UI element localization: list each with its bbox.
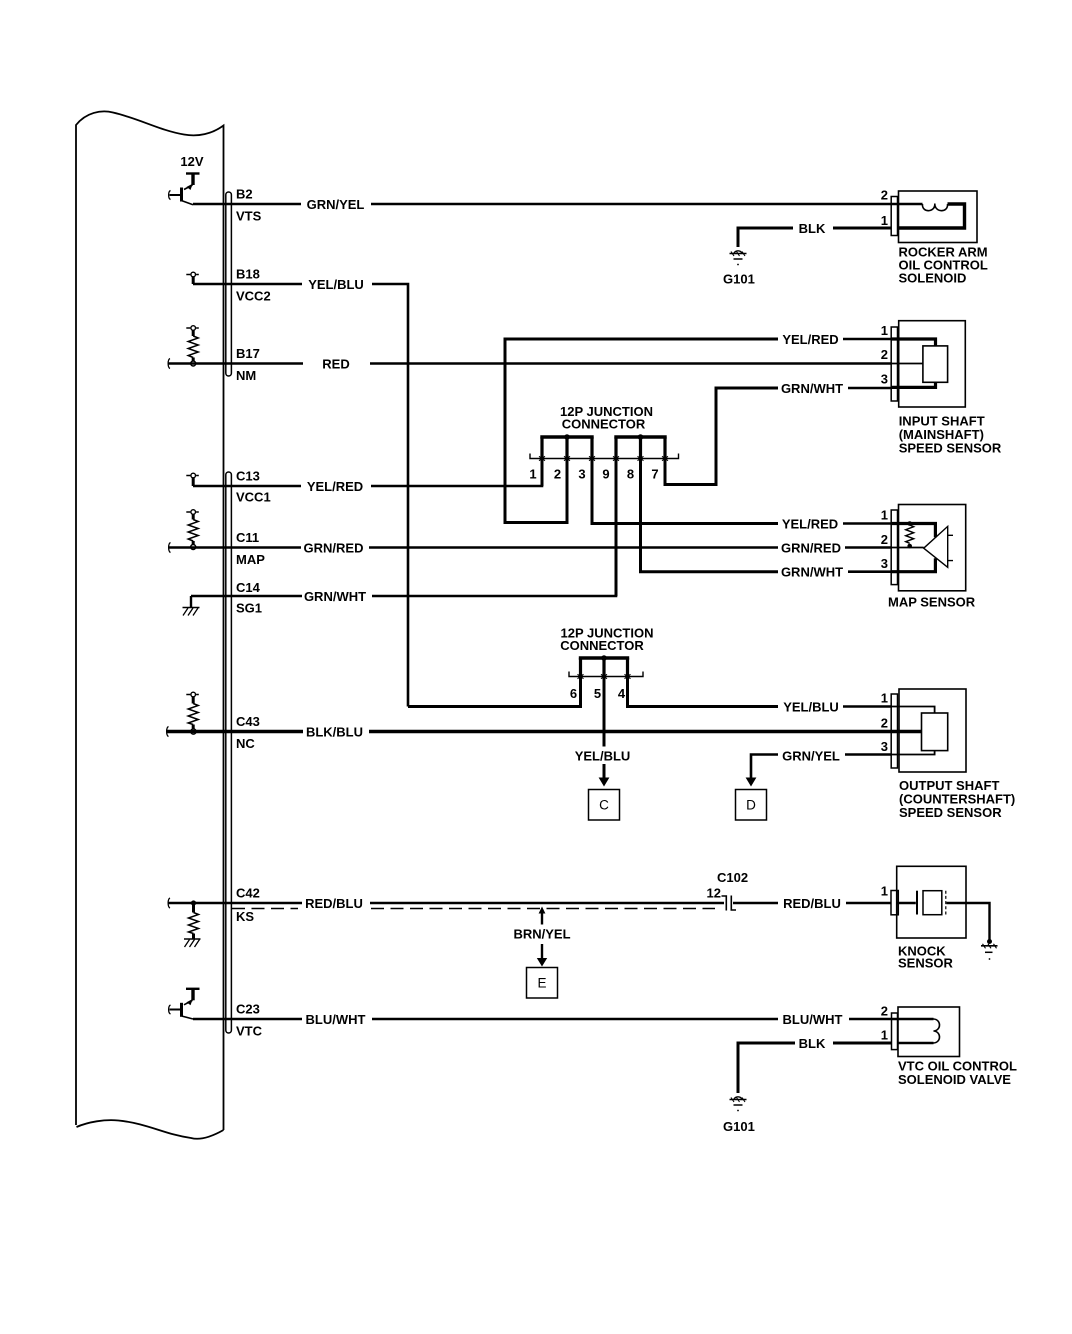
svg-text:BRN/YEL: BRN/YEL [513,927,570,942]
svg-text:D: D [746,798,756,813]
svg-text:GRN/WHT: GRN/WHT [781,565,843,580]
svg-text:KS: KS [236,909,254,924]
svg-text:12: 12 [707,886,721,901]
off-page connector box C [589,790,620,821]
svg-text:GRN/YEL: GRN/YEL [782,749,840,764]
svg-text:8: 8 [627,467,634,482]
MAP sensor box [899,505,966,591]
wire junction2 pin 5 drop to C [603,677,606,780]
arrowhead to D [746,778,757,787]
wire C42 RED/BLU to connector C102 [169,902,725,905]
svg-text:BLK/BLU: BLK/BLU [306,725,363,740]
svg-text:NM: NM [236,368,256,383]
svg-text:GRN/WHT: GRN/WHT [304,589,366,604]
svg-text:12V: 12V [180,154,203,169]
junction 2 crimp marks [578,674,631,678]
svg-text:3: 3 [881,556,888,571]
svg-text:C43: C43 [236,714,260,729]
wire junction1 pin 7 to input shaft GRN/WHT [665,388,778,485]
wire C13 YEL/RED to junction pin 1 [193,458,542,486]
input shaft sensor connector bracket [891,327,897,401]
svg-text:2: 2 [554,467,561,482]
svg-text:1: 1 [881,1028,888,1043]
junction 1 bus bridge pins 9-8-7 [614,434,666,458]
svg-text:BLK: BLK [799,221,826,236]
wire output shaft pin 3 GRN/YEL to D [751,755,892,780]
wire C102 to knock sensor pin 1 [733,902,892,905]
output shaft sensor box [899,689,966,772]
svg-text:SPEED SENSOR: SPEED SENSOR [899,805,1002,820]
wire GRN/WHT to input shaft pin 3 [848,387,892,390]
svg-text:SOLENOID: SOLENOID [899,271,967,286]
svg-text:1: 1 [881,884,888,899]
transistor Q at pin B2 [169,174,200,205]
svg-text:YEL/RED: YEL/RED [782,517,838,532]
svg-text:4: 4 [618,686,626,701]
svg-text:3: 3 [881,739,888,754]
junction 2 bus bridge pins 6-5-4 [579,655,629,676]
wire C14 GRN/WHT to junction pin 9 [191,459,616,596]
pull-up resistor at pin C43 [186,692,199,734]
svg-text:1: 1 [881,691,888,706]
svg-text:C23: C23 [236,1002,260,1017]
rocker arm solenoid coil and loop [892,204,965,229]
off-page connector box E [527,968,558,999]
svg-text:C14: C14 [236,580,261,595]
MAP sensor internals [892,521,954,572]
svg-text:YEL/BLU: YEL/BLU [783,700,839,715]
wire C43 BLK/BLU to output shaft sensor pin 2 [167,730,892,733]
input shaft sensor element [892,339,948,387]
svg-text:2: 2 [881,347,888,362]
svg-text:MAP SENSOR: MAP SENSOR [888,595,976,610]
ECM body outline [76,111,224,1138]
svg-text:CONNECTOR: CONNECTOR [560,638,644,653]
svg-text:C42: C42 [236,886,260,901]
svg-text:SPEED SENSOR: SPEED SENSOR [899,441,1002,456]
svg-text:NC: NC [236,736,255,751]
svg-text:SENSOR: SENSOR [898,956,954,971]
wire stub hook at C42 [168,898,170,908]
wire GRN/WHT to MAP pin 3 [848,570,892,573]
svg-text:SOLENOID VALVE: SOLENOID VALVE [898,1072,1011,1087]
wire BLK from VTC solenoid pin 1 to G101 [738,1043,892,1093]
pull-up resistor at pin B17 [186,326,199,366]
svg-text:C102: C102 [717,870,748,885]
terminal symbol at pin B18 [186,272,199,284]
svg-text:B18: B18 [236,267,260,282]
svg-text:VCC2: VCC2 [236,289,271,304]
svg-text:2: 2 [881,1004,888,1019]
wire stub hook at C43 [167,727,169,737]
junction 2 connector bar [569,672,643,677]
wire junction1 pin 9 down to C14 [615,458,618,596]
wire junction2 pin 6 stub to B18 feed [408,677,581,707]
knock sensor caption [898,944,954,971]
junction 1 crimp marks [539,456,668,460]
wire B18 YEL/BLU down to output shaft feed [193,284,408,707]
svg-text:C11: C11 [236,530,259,545]
svg-text:1: 1 [881,508,888,523]
svg-text:RED/BLU: RED/BLU [305,896,363,911]
svg-text:2: 2 [881,716,888,731]
knock sensor connector bracket [891,891,898,915]
wire BLK from rocker solenoid pin 1 to G101 [738,228,892,247]
wire stub hook at C11 [169,543,171,553]
svg-text:7: 7 [651,467,658,482]
svg-text:VTS: VTS [236,209,262,224]
svg-text:B2: B2 [236,187,253,202]
wire junction1 pin 8 to MAP GRN/WHT [641,458,779,572]
svg-text:6: 6 [570,686,577,701]
svg-text:9: 9 [602,467,609,482]
wire YEL/BLU to output shaft pin 1 [843,705,892,708]
svg-text:BLU/WHT: BLU/WHT [306,1012,366,1027]
svg-text:E: E [537,976,546,991]
svg-text:5: 5 [594,686,601,701]
wire B17 RED to input shaft sensor pin 2 [169,362,892,365]
svg-text:3: 3 [881,372,888,387]
wire YEL/RED to input shaft pin 1 [843,338,892,341]
transistor Q at pin C23 [169,989,200,1019]
ground G101 upper [730,251,747,266]
svg-text:1: 1 [529,467,536,482]
signal ground at pin C14 [183,596,200,616]
wire junction1 pin 3 to MAP YEL/RED [592,458,778,524]
svg-text:2: 2 [881,188,888,203]
junction 2 pin numbers [570,686,626,701]
wire junction1 pin 2 to input shaft YEL/RED [505,339,778,523]
VTC solenoid connector bracket [892,1013,898,1050]
svg-text:CONNECTOR: CONNECTOR [562,417,646,432]
svg-text:G101: G101 [723,1119,755,1134]
svg-text:BLU/WHT: BLU/WHT [783,1012,843,1027]
pull-up resistor at pin C11 [186,510,199,550]
svg-text:YEL/BLU: YEL/BLU [575,749,631,764]
wire YEL/RED to MAP pin 1 [843,522,892,525]
svg-text:MAP: MAP [236,552,265,567]
pull-down resistor to ground at pin C42 [184,900,201,947]
wire junction1 pin 1 stub [541,458,544,486]
svg-text:GRN/RED: GRN/RED [781,541,841,556]
wire B2 GRN/YEL to rocker arm solenoid [193,203,892,206]
svg-text:C13: C13 [236,469,260,484]
svg-text:B17: B17 [236,346,260,361]
svg-text:GRN/WHT: GRN/WHT [781,381,843,396]
wire junction2 pin 4 to output shaft YEL/BLU [628,677,779,707]
output shaft sensor connector bracket [891,694,897,768]
junction 1 pin numbers [529,467,658,482]
off-page connector box D [736,790,767,821]
rocker arm solenoid connector bracket [891,197,897,236]
svg-text:2: 2 [881,532,888,547]
ECM connector shell C13-C23 [226,472,232,1033]
svg-text:SG1: SG1 [236,601,262,616]
VTC solenoid caption [898,1059,1017,1088]
wire C11 GRN/RED to MAP sensor pin 2 [169,546,892,549]
svg-text:1: 1 [881,323,888,338]
svg-text:BLK: BLK [799,1036,826,1051]
svg-text:YEL/RED: YEL/RED [782,332,838,347]
svg-text:YEL/BLU: YEL/BLU [308,277,364,292]
wire stub hook at B17 [168,359,170,369]
output shaft sensor element [892,707,948,755]
input shaft sensor caption [899,414,1002,456]
ECM connector shell B2-B17 [226,192,232,376]
svg-text:YEL/RED: YEL/RED [307,479,363,494]
terminal symbol at pin C13 [186,473,199,486]
svg-text:GRN/YEL: GRN/YEL [307,197,365,212]
svg-text:C: C [599,798,609,813]
VTC solenoid coil [892,1019,940,1043]
rocker arm solenoid box [899,191,978,243]
input shaft sensor box [899,321,966,407]
connector C102 symbol [722,896,737,911]
wire C23 BLU/WHT to VTC solenoid pin 2 [193,1018,892,1021]
knock sensor box [897,866,966,938]
junction 1 connector bar [530,454,679,459]
VTC solenoid box [898,1007,960,1057]
ground G101 lower [730,1097,747,1112]
svg-text:GRN/RED: GRN/RED [304,541,364,556]
svg-text:G101: G101 [723,272,755,287]
svg-text:RED: RED [322,357,349,372]
arrowhead to C [599,778,610,787]
svg-text:3: 3 [578,467,585,482]
MAP sensor connector bracket [891,510,897,585]
shield dashed line along knock sensor wire [232,908,715,910]
output shaft sensor caption [899,778,1015,820]
knock sensor chassis ground [981,939,998,960]
svg-text:VCC1: VCC1 [236,490,271,505]
junction 1 bus bridge pins 1-2-3 [540,434,593,458]
svg-text:RED/BLU: RED/BLU [783,896,841,911]
rocker arm solenoid caption [899,245,988,286]
svg-text:1: 1 [881,213,888,228]
svg-text:VTC: VTC [236,1024,263,1039]
shield drain arrow to E [537,907,547,967]
knock sensor element [898,891,990,940]
